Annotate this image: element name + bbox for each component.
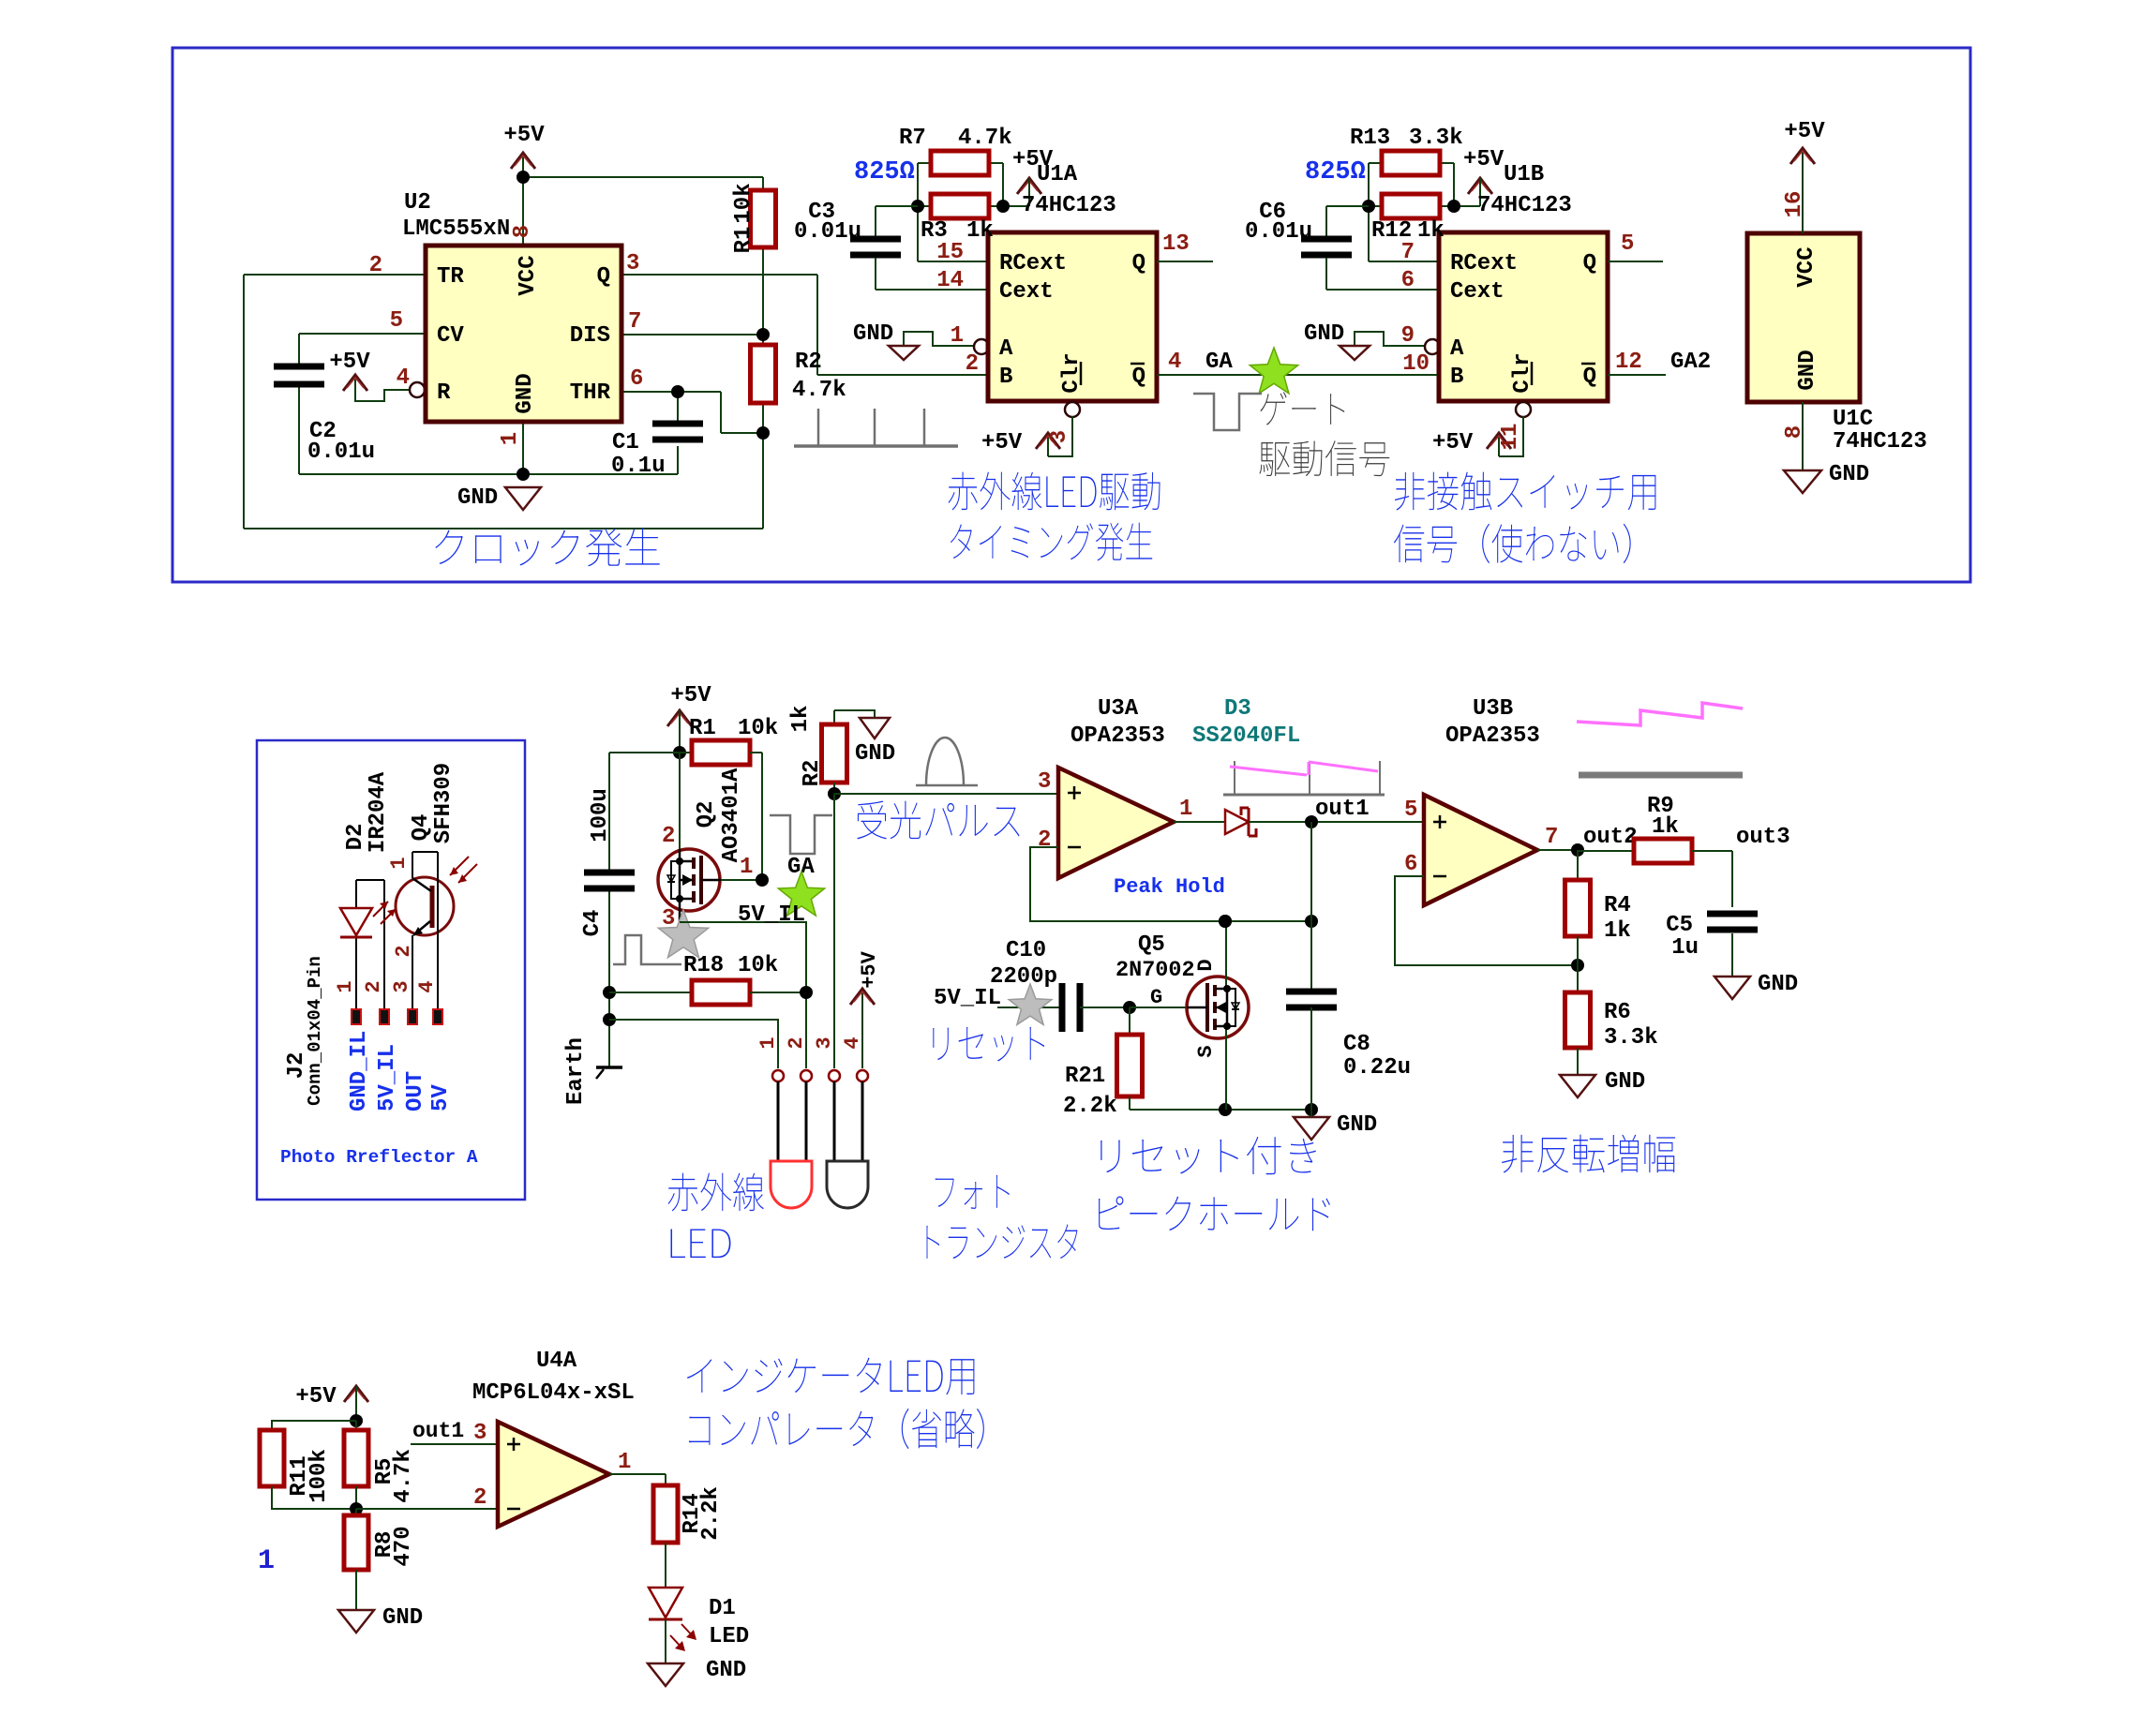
svg-text:5: 5	[1621, 231, 1634, 257]
svg-text:R7: R7	[899, 126, 926, 151]
svg-text:GND: GND	[1795, 350, 1820, 390]
svg-text:VCC: VCC	[1794, 246, 1819, 287]
svg-text:LED: LED	[709, 1624, 749, 1649]
svg-text:RCext: RCext	[1450, 251, 1518, 276]
svg-text:6: 6	[1401, 268, 1415, 293]
svg-text:R6: R6	[1604, 1000, 1631, 1025]
svg-text:1: 1	[618, 1450, 631, 1475]
svg-text:R1: R1	[731, 227, 756, 254]
svg-text:4.7k: 4.7k	[958, 126, 1012, 151]
svg-text:+5V: +5V	[858, 950, 881, 988]
svg-text:R2: R2	[795, 350, 822, 375]
svg-text:+5V: +5V	[981, 430, 1023, 455]
svg-text:0.01u: 0.01u	[1245, 219, 1312, 245]
svg-text:470: 470	[391, 1526, 416, 1566]
svg-text:OUT: OUT	[403, 1071, 428, 1111]
svg-text:1: 1	[334, 980, 357, 992]
svg-text:Cext: Cext	[999, 279, 1054, 305]
svg-text:out3: out3	[1736, 825, 1790, 850]
svg-text:GA: GA	[1205, 350, 1233, 375]
svg-text:VCC: VCC	[516, 255, 541, 295]
svg-text:0.22u: 0.22u	[1343, 1055, 1411, 1081]
svg-text:D3: D3	[1224, 696, 1251, 722]
svg-text:D: D	[1194, 959, 1218, 971]
svg-text:1k: 1k	[966, 218, 994, 244]
svg-text:1: 1	[951, 323, 964, 349]
svg-text:Cext: Cext	[1450, 279, 1505, 305]
svg-text:74HC123: 74HC123	[1833, 429, 1927, 455]
svg-text:6: 6	[1404, 852, 1417, 877]
svg-text:Q: Q	[1132, 251, 1145, 276]
svg-text:3: 3	[1038, 769, 1051, 795]
svg-text:15: 15	[936, 240, 964, 265]
svg-text:2.2k: 2.2k	[698, 1486, 724, 1541]
svg-text:3.3k: 3.3k	[1604, 1025, 1658, 1051]
svg-text:U1A: U1A	[1037, 162, 1078, 187]
svg-text:+5V: +5V	[1784, 119, 1825, 144]
svg-text:R: R	[437, 380, 451, 406]
svg-text:825Ω: 825Ω	[854, 158, 915, 186]
svg-text:10k: 10k	[731, 183, 756, 223]
svg-text:10k: 10k	[738, 953, 778, 978]
svg-text:+5V: +5V	[329, 350, 370, 375]
svg-text:U4A: U4A	[536, 1349, 577, 1374]
svg-text:SS2040FL: SS2040FL	[1192, 723, 1300, 749]
svg-text:B: B	[1450, 365, 1463, 390]
svg-text:B: B	[999, 365, 1012, 390]
svg-text:TR: TR	[437, 264, 464, 290]
svg-text:U3A: U3A	[1098, 696, 1139, 722]
svg-text:CV: CV	[437, 323, 464, 349]
svg-text:3: 3	[473, 1421, 487, 1446]
svg-text:D1: D1	[709, 1596, 736, 1621]
svg-text:Q: Q	[1583, 365, 1596, 390]
svg-text:GND: GND	[706, 1658, 746, 1683]
svg-text:4: 4	[1168, 350, 1181, 375]
svg-text:1u: 1u	[1671, 935, 1699, 961]
svg-text:U1C: U1C	[1833, 407, 1873, 432]
svg-text:GND: GND	[1304, 321, 1344, 347]
svg-text:C5: C5	[1666, 913, 1693, 938]
svg-text:5: 5	[390, 308, 403, 334]
svg-text:1k: 1k	[1417, 218, 1445, 244]
svg-text:R2: R2	[800, 760, 825, 787]
svg-text:1k: 1k	[1604, 918, 1631, 944]
svg-text:3: 3	[390, 980, 413, 992]
svg-text:Q5: Q5	[1138, 932, 1165, 958]
svg-text:2N7002: 2N7002	[1115, 958, 1195, 983]
svg-text:5V_IL: 5V_IL	[934, 986, 1001, 1011]
svg-text:Q4: Q4	[409, 814, 434, 842]
svg-text:GND: GND	[855, 741, 895, 767]
svg-text:1: 1	[387, 857, 411, 869]
svg-text:A: A	[1450, 336, 1464, 362]
svg-text:U3B: U3B	[1473, 696, 1513, 722]
svg-text:Q: Q	[1132, 365, 1145, 390]
svg-text:GND: GND	[513, 373, 538, 413]
svg-text:2: 2	[1038, 828, 1051, 853]
svg-text:4.7k: 4.7k	[391, 1449, 416, 1503]
svg-text:U2: U2	[404, 190, 431, 216]
svg-text:12: 12	[1615, 350, 1642, 375]
svg-text:IR204A: IR204A	[366, 771, 391, 853]
svg-text:3.3k: 3.3k	[1409, 126, 1463, 151]
svg-text:10k: 10k	[738, 716, 778, 741]
svg-text:R13: R13	[1350, 126, 1390, 151]
svg-text:C4: C4	[580, 910, 606, 937]
svg-text:LMC555xN: LMC555xN	[402, 216, 510, 242]
svg-text:4: 4	[415, 980, 439, 992]
svg-text:Photo Rreflector A: Photo Rreflector A	[280, 1147, 478, 1168]
svg-text:R1: R1	[689, 716, 716, 741]
svg-text:4: 4	[841, 1036, 864, 1049]
svg-text:2: 2	[392, 945, 415, 957]
svg-text:100u: 100u	[588, 788, 613, 843]
svg-text:6: 6	[630, 366, 643, 392]
svg-text:2: 2	[785, 1036, 808, 1049]
svg-text:MCP6L04x-xSL: MCP6L04x-xSL	[472, 1380, 635, 1406]
svg-text:1: 1	[756, 1036, 780, 1049]
svg-text:9: 9	[1401, 323, 1415, 349]
svg-text:0.01u: 0.01u	[307, 440, 375, 465]
svg-text:0.01u: 0.01u	[794, 219, 861, 245]
svg-text:74HC123: 74HC123	[1477, 193, 1572, 218]
svg-text:D2: D2	[343, 824, 368, 851]
svg-text:Q: Q	[1583, 251, 1596, 276]
svg-text:GND: GND	[457, 485, 498, 511]
svg-text:2: 2	[966, 351, 979, 377]
svg-text:THR: THR	[570, 380, 611, 406]
svg-text:R18: R18	[683, 953, 724, 978]
svg-text:+5V: +5V	[503, 123, 545, 148]
svg-text:13: 13	[1162, 231, 1190, 257]
svg-text:100k: 100k	[307, 1449, 332, 1503]
svg-text:4.7k: 4.7k	[792, 378, 846, 403]
svg-text:Peak Hold: Peak Hold	[1114, 875, 1225, 899]
svg-text:GND_IL: GND_IL	[347, 1031, 372, 1111]
svg-text:RCext: RCext	[999, 251, 1067, 276]
svg-text:C1: C1	[612, 430, 639, 455]
svg-text:1: 1	[258, 1545, 275, 1577]
svg-text:2: 2	[473, 1485, 487, 1511]
svg-text:2.2k: 2.2k	[1063, 1094, 1117, 1119]
svg-text:Earth: Earth	[563, 1037, 589, 1105]
svg-text:74HC123: 74HC123	[1022, 193, 1116, 218]
svg-text:1: 1	[498, 432, 523, 445]
svg-text:Q: Q	[597, 264, 610, 290]
svg-text:GND: GND	[382, 1605, 423, 1631]
svg-text:R12: R12	[1371, 218, 1412, 244]
svg-text:7: 7	[1401, 240, 1415, 265]
svg-text:out1: out1	[412, 1419, 464, 1443]
svg-text:GND: GND	[1337, 1112, 1377, 1138]
svg-text:SFH309: SFH309	[431, 763, 457, 843]
svg-text:out2: out2	[1583, 825, 1638, 850]
svg-text:+5V: +5V	[1463, 147, 1505, 172]
svg-text:+5V: +5V	[295, 1384, 337, 1409]
svg-text:5V: 5V	[428, 1084, 454, 1111]
svg-text:S: S	[1194, 1045, 1218, 1057]
svg-text:3: 3	[626, 251, 639, 276]
svg-text:5V_IL: 5V_IL	[375, 1044, 400, 1111]
svg-text:C8: C8	[1343, 1032, 1370, 1057]
svg-text:G: G	[1150, 986, 1162, 1009]
svg-text:R4: R4	[1604, 893, 1631, 918]
svg-text:1: 1	[1179, 797, 1192, 822]
svg-text:GND: GND	[1758, 972, 1798, 997]
svg-text:OPA2353: OPA2353	[1071, 723, 1165, 749]
svg-text:1k: 1k	[788, 706, 814, 733]
svg-text:2: 2	[362, 980, 385, 992]
svg-text:5: 5	[1404, 798, 1417, 823]
svg-text:2: 2	[662, 824, 675, 849]
svg-text:+5V: +5V	[1432, 430, 1474, 455]
svg-text:825Ω: 825Ω	[1305, 158, 1366, 186]
svg-text:out1: out1	[1315, 797, 1370, 822]
svg-text:5V_IL: 5V_IL	[738, 902, 805, 928]
svg-text:14: 14	[936, 268, 964, 293]
svg-text:GA2: GA2	[1670, 350, 1711, 375]
svg-text:A: A	[999, 336, 1013, 362]
svg-text:10: 10	[1402, 351, 1430, 377]
svg-text:Conn_01x04_Pin: Conn_01x04_Pin	[305, 956, 325, 1106]
svg-text:OPA2353: OPA2353	[1445, 723, 1540, 749]
svg-text:1k: 1k	[1652, 814, 1679, 840]
svg-text:0.1u: 0.1u	[611, 454, 666, 479]
svg-text:8: 8	[1782, 425, 1807, 439]
svg-text:C10: C10	[1006, 938, 1046, 963]
svg-text:16: 16	[1782, 191, 1807, 218]
svg-text:4: 4	[397, 365, 410, 391]
svg-text:U1B: U1B	[1504, 162, 1544, 187]
svg-text:2: 2	[369, 253, 382, 278]
svg-text:GND: GND	[1605, 1069, 1645, 1095]
svg-text:+5V: +5V	[670, 683, 711, 708]
svg-text:7: 7	[1545, 825, 1558, 850]
svg-text:AO3401A: AO3401A	[719, 768, 744, 862]
svg-text:R21: R21	[1065, 1064, 1105, 1089]
svg-text:11: 11	[1498, 424, 1523, 451]
svg-text:GND: GND	[1829, 462, 1869, 487]
svg-text:DIS: DIS	[570, 323, 610, 349]
svg-text:8: 8	[510, 225, 535, 238]
svg-text:GND: GND	[853, 321, 893, 347]
svg-text:7: 7	[628, 309, 641, 335]
svg-text:3: 3	[1047, 430, 1072, 443]
svg-text:3: 3	[813, 1036, 836, 1049]
svg-text:R3: R3	[921, 218, 948, 244]
svg-text:Q2: Q2	[694, 801, 719, 828]
